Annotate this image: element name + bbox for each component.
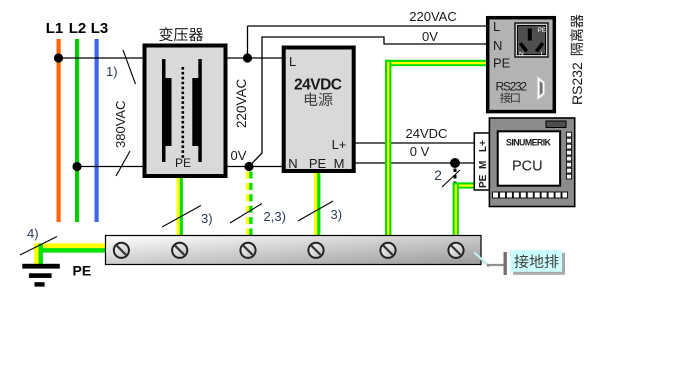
svg-text:N: N xyxy=(519,51,524,58)
callout line to ground bar label xyxy=(476,254,489,267)
svg-text:220VAC: 220VAC xyxy=(409,9,456,24)
svg-text:PCU: PCU xyxy=(512,159,543,175)
mark 2 slash xyxy=(442,170,460,187)
svg-text:L3: L3 xyxy=(91,20,109,37)
PE wire isolator horizontal xyxy=(385,60,487,66)
svg-text:PE: PE xyxy=(493,56,511,71)
PCU panel xyxy=(489,118,574,207)
svg-text:L: L xyxy=(541,51,545,58)
wire 220VAC riser xyxy=(247,26,249,58)
PE wire PCU horizontal xyxy=(453,182,475,188)
cable mark slash lower xyxy=(116,151,130,176)
svg-text:PE: PE xyxy=(309,156,327,171)
junction 0V xyxy=(244,162,253,171)
junction on L1 xyxy=(54,53,63,62)
junction on L2 xyxy=(72,162,81,171)
svg-text:PE: PE xyxy=(478,174,489,188)
mark 3) 24VDC PE xyxy=(298,201,333,221)
PCU side keys xyxy=(566,132,571,137)
ground bar label box xyxy=(513,253,565,275)
screw terminal 1 xyxy=(114,243,129,258)
24VDC power supply box xyxy=(284,48,354,172)
PE wire 24VDC to ground bar xyxy=(314,173,317,245)
mark 3) transformer PE xyxy=(162,206,201,228)
PCU screen xyxy=(498,131,560,185)
svg-text:SINUMERIK: SINUMERIK xyxy=(506,138,552,148)
screw terminal 5 xyxy=(380,243,395,258)
dashed link 2 xyxy=(454,169,457,186)
earth ground symbol xyxy=(22,264,60,269)
svg-text:0 V: 0 V xyxy=(410,144,430,159)
transformer core dashed line xyxy=(182,67,185,158)
phase line L1 xyxy=(57,39,61,222)
phase line L3 xyxy=(95,39,99,222)
wire 0V riser to isolator N xyxy=(249,37,487,167)
power socket icon xyxy=(515,23,548,57)
transformer box xyxy=(145,46,226,177)
svg-text:1): 1) xyxy=(106,64,118,79)
transformer secondary winding xyxy=(192,59,202,162)
svg-text:PE: PE xyxy=(538,27,547,34)
RS232 connector icon xyxy=(537,76,544,100)
ground bar xyxy=(106,236,482,265)
PCU bottom keys xyxy=(493,192,499,198)
svg-text:0V: 0V xyxy=(231,148,247,163)
junction M xyxy=(450,158,460,168)
svg-text:380VAC: 380VAC xyxy=(113,101,128,148)
svg-text:M: M xyxy=(478,161,489,169)
screw terminal 4 xyxy=(308,243,323,258)
transformer label xyxy=(159,27,173,41)
RS232 isolator box xyxy=(488,18,555,112)
PCU terminal strip xyxy=(474,133,489,190)
svg-text:L: L xyxy=(289,54,296,69)
cable mark 1) slash xyxy=(123,50,136,84)
svg-text:24VDC: 24VDC xyxy=(406,126,448,141)
junction 220VAC xyxy=(243,53,252,62)
mark 4) slash xyxy=(20,237,57,256)
wire M 0V xyxy=(354,162,475,164)
wire transformer secondary 220VAC xyxy=(226,57,284,59)
screw terminal 2 xyxy=(172,243,187,258)
svg-text:2: 2 xyxy=(434,167,442,183)
svg-text:RS232: RS232 xyxy=(569,62,585,105)
screw terminal 3 xyxy=(240,243,255,258)
PE wire earth electrode horizontal xyxy=(34,243,115,248)
svg-text:0V: 0V xyxy=(422,29,438,44)
svg-text:N: N xyxy=(493,38,502,53)
wire 220VAC to isolator L xyxy=(248,25,488,27)
svg-text:L1: L1 xyxy=(46,20,64,37)
svg-text:3): 3) xyxy=(201,211,213,226)
svg-text:L+: L+ xyxy=(332,137,347,152)
screw terminal 6 xyxy=(448,243,463,258)
svg-text:L+: L+ xyxy=(478,140,489,152)
svg-text:PE: PE xyxy=(73,263,92,279)
wire L+ 24VDC xyxy=(354,142,475,144)
svg-text:24VDC: 24VDC xyxy=(294,77,342,94)
mark 2,3) dashed PE xyxy=(230,204,262,224)
svg-text:RS232: RS232 xyxy=(496,80,528,94)
phase line L2 xyxy=(75,39,79,222)
svg-text:2,3): 2,3) xyxy=(264,209,286,224)
svg-text:L2: L2 xyxy=(69,20,87,37)
svg-text:N: N xyxy=(288,156,297,171)
wire transformer secondary 0V xyxy=(226,166,284,168)
svg-text:220VAC: 220VAC xyxy=(234,78,249,128)
svg-text:PE: PE xyxy=(175,156,191,170)
PE wire earth electrode vertical xyxy=(34,243,38,264)
svg-text:L: L xyxy=(493,19,500,34)
transformer primary winding xyxy=(162,59,172,162)
PE wire transformer to ground bar xyxy=(177,178,180,245)
PE wire PCU vertical to ground bar xyxy=(453,182,459,245)
svg-text:4): 4) xyxy=(27,226,39,241)
svg-text:3): 3) xyxy=(331,207,343,222)
wire L1 to transformer primary xyxy=(59,57,143,59)
wire L2 to transformer primary xyxy=(77,166,143,168)
PE wire isolator vertical to ground bar xyxy=(385,60,391,245)
svg-text:M: M xyxy=(334,156,345,171)
PE dashed wire 0V to ground bar xyxy=(246,172,249,179)
PCU top vent xyxy=(546,121,566,128)
